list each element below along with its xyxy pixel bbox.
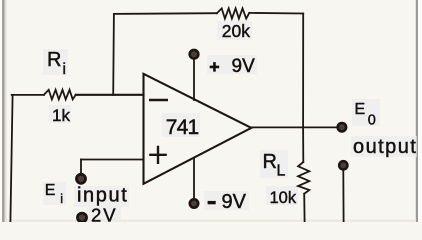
wire: non-inverting input horizontal [81, 159, 144, 161]
left white margin [0, 0, 2, 222]
svg-text:E: E [355, 101, 366, 118]
faint scan halos behind labels [43, 21, 417, 222]
svg-text:i: i [60, 192, 63, 206]
resistor R1 Ri 1k zigzag [44, 90, 76, 100]
label Ei [45, 182, 63, 206]
label E0 [355, 101, 376, 129]
wire: right vertical down to output node [302, 14, 304, 128]
svg-text:i: i [63, 61, 66, 78]
terminal dot lower output [338, 160, 349, 171]
svg-text:output: output [353, 136, 417, 158]
svg-text:1k: 1k [52, 106, 70, 125]
svg-text:R: R [47, 49, 61, 71]
svg-text:E: E [45, 182, 56, 199]
wire: output from apex to terminal [251, 126, 337, 128]
svg-text:input: input [77, 185, 128, 207]
label -9V [208, 201, 216, 204]
label +9V [210, 62, 220, 72]
terminal dot 2V [76, 212, 88, 224]
svg-text:L: L [277, 163, 286, 180]
wire: top right segment [249, 12, 303, 15]
wire: -9V supply lead [193, 159, 195, 199]
svg-text:9V: 9V [222, 191, 247, 213]
svg-text:741: 741 [166, 116, 199, 139]
right gray edge line [416, 0, 418, 222]
left gray edge band [2, 0, 5, 222]
svg-text:9V: 9V [232, 56, 256, 77]
wire: non-inverting input drop to Ei terminal [80, 160, 82, 174]
op-amp plus sign [149, 146, 167, 164]
label RL [263, 151, 286, 180]
wire: output node down to RL [302, 128, 304, 163]
svg-text:0: 0 [368, 113, 376, 129]
wire: Ri to op-amp inverting input [76, 94, 144, 96]
op-amp minus sign [149, 99, 168, 101]
wire: top left segment [114, 12, 217, 15]
wire: +9V supply lead [193, 60, 195, 101]
wire: feedback left vertical [112, 14, 115, 95]
terminal dot -9V [189, 198, 200, 209]
terminal dot E0 output [336, 122, 347, 133]
wire: lower output terminal lead down [342, 171, 344, 222]
svg-text:10k: 10k [270, 189, 297, 207]
label Ri [47, 49, 66, 78]
right white margin [418, 0, 422, 222]
terminal dot +9V [188, 49, 199, 60]
resistor R2 20k feedback zigzag [217, 8, 249, 18]
svg-text:2V: 2V [91, 205, 118, 222]
wire: RL bottom lead off image [303, 194, 305, 222]
terminal dot Ei input [75, 173, 87, 185]
svg-text:R: R [263, 151, 277, 173]
op-amp U1 triangle [144, 74, 252, 184]
wire: left vertical from input line down off bottom [10, 95, 12, 222]
svg-text:20k: 20k [222, 21, 250, 41]
resistor R3 RL 10k vertical zigzag [298, 162, 309, 194]
wire: left horizontal to Ri [12, 94, 44, 96]
bottom beige strip [5, 220, 416, 223]
